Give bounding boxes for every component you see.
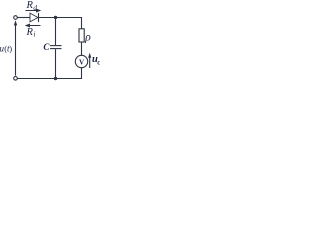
svg-text:i: i xyxy=(33,30,35,39)
svg-text:C: C xyxy=(43,42,50,52)
wire voltmeter to bottom xyxy=(81,68,83,79)
svg-text:): ) xyxy=(9,44,12,54)
resistor rho xyxy=(79,29,84,42)
node junction top xyxy=(54,16,57,19)
wire top-left xyxy=(17,17,30,19)
terminal node top-left xyxy=(14,16,18,20)
svg-text:c: c xyxy=(97,58,100,66)
svg-text:ρ: ρ xyxy=(84,31,91,43)
svg-text:V: V xyxy=(79,59,85,67)
arrow reverse direction R_i xyxy=(25,24,41,28)
wire top-right corner down xyxy=(81,17,83,29)
svg-text:d: d xyxy=(33,3,37,12)
svg-text:R: R xyxy=(26,27,34,38)
wire bottom xyxy=(17,78,82,80)
wire resistor to voltmeter xyxy=(81,42,83,55)
wire capacitor top lead xyxy=(55,18,57,46)
arrow forward direction R_d xyxy=(26,9,42,13)
voltmeter V xyxy=(75,55,87,67)
diode xyxy=(30,13,39,22)
source voltage arrow u(t) xyxy=(14,20,17,75)
node junction bottom xyxy=(54,77,57,80)
wire capacitor bottom lead xyxy=(55,49,57,78)
terminal node bottom-left xyxy=(14,77,18,81)
capacitor C xyxy=(50,46,62,49)
arrow u_C xyxy=(88,53,91,68)
wire top-middle xyxy=(39,17,83,19)
